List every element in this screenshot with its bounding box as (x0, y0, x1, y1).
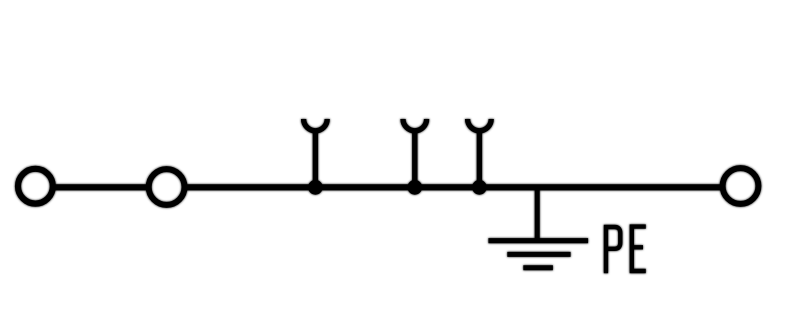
junction node 3 (472, 180, 487, 195)
ground bar middle (507, 252, 570, 257)
wire left circle to middle circle (54, 184, 147, 190)
junction node 1 (308, 180, 323, 195)
tap fork arc 3 (468, 119, 492, 131)
ground bar top (488, 238, 588, 243)
terminal circle middle (149, 169, 185, 205)
tap stub wire 2 (412, 129, 417, 188)
tap fork arc 1 (304, 119, 328, 131)
junction node 2 (407, 180, 422, 195)
tap stub wire 3 (477, 129, 482, 188)
terminal circle left (18, 169, 53, 204)
label PE letter P (604, 227, 621, 273)
ground stem wire (535, 187, 540, 241)
wire middle circle to right circle (186, 184, 721, 190)
ground bar bottom (523, 265, 553, 270)
tap fork arc 2 (403, 119, 427, 131)
terminal circle right (723, 168, 759, 204)
label PE letter E (630, 225, 646, 274)
tap stub wire 1 (313, 129, 318, 188)
